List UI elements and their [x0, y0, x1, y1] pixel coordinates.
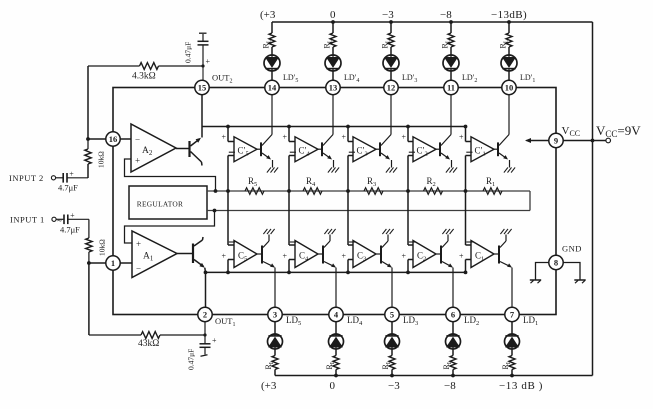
- wire RL to LED top 3: [390, 47, 392, 55]
- wire pin2 to feedback: [204, 321, 206, 335]
- svg-text:C′5: C′5: [238, 146, 249, 158]
- resistor RL bottom 2: [450, 356, 456, 370]
- resistor 4.3k feedback: [88, 65, 140, 67]
- svg-text:R2: R2: [427, 176, 436, 188]
- resistor 43k feedback: [89, 334, 141, 336]
- svg-text:−: −: [136, 264, 141, 274]
- LED LD'5: [264, 55, 280, 71]
- ground ref bottom cell 3: [382, 229, 386, 234]
- wire top col 4 rail to RL: [332, 22, 334, 33]
- IC outline: [113, 88, 556, 315]
- svg-text:RL: RL: [442, 360, 453, 369]
- svg-text:0: 0: [330, 380, 336, 392]
- svg-text:C′2: C′2: [417, 146, 428, 158]
- svg-text:A1: A1: [143, 252, 154, 263]
- regulator U2: [129, 186, 207, 219]
- wire LED to RL bottom 2: [452, 349, 454, 356]
- transistor bottom Q3 base: [380, 246, 382, 264]
- svg-text:REGULATOR: REGULATOR: [137, 200, 184, 209]
- wire pin4 to LED: [335, 321, 337, 334]
- pin 10: [502, 80, 516, 94]
- wire top col 3 rail to RL: [390, 22, 392, 33]
- svg-text:LD2: LD2: [464, 315, 479, 327]
- wire RL to rail bottom 1: [511, 370, 513, 376]
- resistor RL bottom 5: [272, 356, 278, 370]
- ground ref bottom cell 1: [500, 229, 504, 234]
- wire RL to rail bottom 2: [452, 370, 454, 376]
- pin 13: [326, 80, 340, 94]
- svg-text:11: 11: [447, 82, 455, 92]
- svg-text:RL: RL: [381, 39, 392, 48]
- pin 5: [385, 307, 399, 321]
- transistor bottom Q1 base: [498, 246, 500, 264]
- svg-text:0.47μF: 0.47μF: [184, 42, 193, 63]
- svg-text:+: +: [342, 133, 347, 142]
- svg-text:2: 2: [203, 309, 207, 319]
- svg-text:8: 8: [554, 257, 558, 267]
- junction bottom rail cell C5: [226, 271, 230, 275]
- comparator C'4: [295, 137, 318, 162]
- resistor R4: [303, 188, 322, 195]
- transistor bottom Q3 collector: [382, 241, 388, 248]
- svg-text:+: +: [283, 133, 288, 142]
- wire pin16 to A2 inv input: [120, 138, 131, 140]
- svg-text:6: 6: [451, 309, 455, 319]
- svg-text:+: +: [206, 57, 211, 66]
- svg-text:LD′2: LD′2: [462, 73, 477, 84]
- wire resistor chain: [207, 190, 530, 192]
- wire A1 noninv reference path: [125, 211, 215, 244]
- pin 6: [446, 307, 460, 321]
- transistor top Q'4 emitter: [323, 153, 331, 159]
- wire feedback top vertical: [87, 66, 89, 139]
- comparator C5: [234, 241, 257, 268]
- ground ref bottom cell 5: [263, 229, 267, 234]
- wire C'1 + input: [465, 127, 467, 142]
- transistor bottom Q4 collector: [324, 241, 330, 248]
- wire LED to RL bottom 1: [511, 349, 513, 356]
- svg-text:+: +: [342, 252, 347, 261]
- comparator C'3: [353, 137, 376, 162]
- junction pin1 feedback node: [87, 261, 91, 265]
- svg-text:RL: RL: [323, 39, 334, 48]
- svg-text:4.3kΩ: 4.3kΩ: [132, 72, 156, 82]
- transistor Q1 emitter: [194, 260, 204, 267]
- ground left of pin8: [536, 263, 549, 280]
- ground top cell 4: [328, 167, 332, 172]
- ground ref bottom cell 4: [324, 229, 328, 234]
- svg-text:0: 0: [330, 9, 336, 21]
- svg-text:+: +: [222, 133, 227, 142]
- transistor top Q'2 base: [439, 142, 441, 156]
- node chain tap 5: [226, 189, 230, 193]
- junction top rail cell C'5: [226, 125, 230, 129]
- svg-text:LD′3: LD′3: [402, 73, 417, 84]
- resistor R1: [483, 188, 502, 195]
- op-amp A2: [131, 124, 176, 172]
- comparator C3: [353, 241, 376, 268]
- svg-text:10kΩ: 10kΩ: [98, 239, 107, 256]
- transistor Q2 collector: [191, 152, 202, 163]
- wire top col 5 rail to RL: [271, 22, 273, 33]
- svg-text:0.47μF: 0.47μF: [187, 349, 196, 370]
- wire C2 - input: [407, 191, 409, 245]
- wire RL to rail bottom 5: [274, 370, 276, 376]
- wire C'2 + input: [407, 127, 409, 142]
- transistor Q2 emitter: [191, 139, 200, 146]
- wire LED to pin top 3: [390, 71, 392, 81]
- wire C'4 + input: [288, 127, 290, 142]
- svg-text:+: +: [222, 252, 227, 261]
- pin 14: [265, 80, 279, 94]
- svg-text:15: 15: [198, 82, 207, 92]
- svg-text:+: +: [70, 211, 75, 220]
- transistor top Q'2 collector: [441, 135, 451, 146]
- LED LD2: [446, 334, 461, 349]
- LED LD'4: [325, 55, 341, 71]
- ground top cell 2: [446, 167, 450, 172]
- transistor bottom Q1 emitter: [500, 262, 511, 267]
- terminal VCC supply: [606, 138, 611, 143]
- transistor top Q'4 collector: [323, 135, 333, 146]
- node chain tap 2: [406, 189, 410, 193]
- svg-text:VCC: VCC: [562, 125, 581, 138]
- svg-text:C4: C4: [299, 251, 309, 263]
- svg-text:−13 dB ): −13 dB ): [499, 380, 543, 392]
- wire LED to pin top 5: [271, 71, 273, 81]
- transistor top Q'5 collector: [262, 135, 272, 146]
- svg-text:−8: −8: [444, 380, 456, 392]
- svg-text:LD′1: LD′1: [520, 73, 535, 84]
- svg-text:LD′4: LD′4: [344, 73, 359, 84]
- LED LD'3: [383, 55, 399, 71]
- resistor RL bottom 1: [509, 356, 515, 370]
- wire C3 + input: [348, 259, 353, 261]
- svg-text:INPUT 1: INPUT 1: [10, 215, 45, 225]
- wire feedback bottom vertical: [88, 263, 90, 335]
- transistor bottom Q5 emitter: [263, 262, 274, 267]
- svg-text:+: +: [136, 239, 141, 249]
- transistor top Q'1 emitter: [499, 153, 507, 159]
- resistor RL top 1: [506, 33, 512, 47]
- svg-text:C3: C3: [357, 251, 366, 263]
- svg-text:R5: R5: [248, 176, 257, 188]
- transistor Q1 collector: [194, 240, 203, 246]
- svg-text:RL: RL: [499, 39, 510, 48]
- junction top rail cell C'2: [406, 125, 410, 129]
- wire RL to LED top 1: [508, 47, 510, 55]
- resistor RL top 4: [330, 33, 336, 47]
- junction A2 ref on chain: [214, 189, 218, 193]
- svg-text:RL: RL: [501, 360, 512, 369]
- svg-text:GND: GND: [562, 244, 582, 254]
- svg-text:RL: RL: [441, 39, 452, 48]
- wire A2 noninv reference path: [125, 159, 216, 191]
- ground top cell 3: [386, 167, 390, 172]
- svg-text:A2: A2: [142, 146, 153, 157]
- LED LD4: [329, 334, 344, 349]
- svg-text:(+3: (+3: [261, 380, 277, 392]
- capacitor 0.47uF top: [202, 45, 204, 66]
- wire C'5 - input: [228, 155, 234, 157]
- ground right of pin8: [563, 263, 580, 280]
- wire top signal rail: [202, 126, 466, 128]
- LED LD'2: [443, 55, 459, 71]
- svg-text:RL: RL: [264, 360, 275, 369]
- svg-text:RL: RL: [325, 360, 336, 369]
- svg-text:12: 12: [387, 82, 396, 92]
- wire bottom VCC rail: [275, 375, 593, 377]
- wire C'4 - input: [289, 155, 295, 157]
- svg-text:5: 5: [390, 309, 394, 319]
- wire pin3 to LED: [274, 321, 276, 334]
- transistor bottom Q4 emitter: [324, 262, 335, 267]
- svg-text:+: +: [212, 336, 217, 345]
- comparator C'2: [413, 137, 436, 162]
- svg-text:OUT2: OUT2: [212, 73, 232, 85]
- LED LD1: [505, 334, 520, 349]
- svg-text:+: +: [402, 252, 407, 261]
- node chain tap 1: [464, 189, 468, 193]
- wire C4 + input: [289, 259, 295, 261]
- svg-text:43kΩ: 43kΩ: [138, 339, 159, 349]
- svg-text:+: +: [459, 133, 464, 142]
- transistor top Q'3 emitter: [381, 153, 389, 159]
- resistor RL bottom 4: [333, 356, 339, 370]
- svg-text:1: 1: [111, 258, 115, 268]
- svg-text:RL: RL: [381, 360, 392, 369]
- svg-text:−3: −3: [388, 380, 400, 392]
- wire top col 2 rail to RL: [450, 22, 452, 33]
- wire 10k to input2 node: [87, 164, 89, 178]
- pin 11: [444, 80, 458, 94]
- wire C2 + input: [408, 259, 413, 261]
- wire pin2 to emitter node: [205, 272, 207, 308]
- wire RL to LED top 4: [332, 47, 334, 55]
- arrow VCC feed: [527, 140, 549, 142]
- svg-text:C′1: C′1: [475, 146, 486, 158]
- svg-text:4.7μF: 4.7μF: [60, 225, 80, 235]
- wire LED to RL bottom 3: [391, 349, 393, 356]
- resistor R5: [245, 188, 264, 195]
- wire RL to rail bottom 3: [391, 370, 393, 376]
- wire C'1 - input: [466, 155, 472, 157]
- node chain tap 3: [346, 189, 350, 193]
- wire pin9 to supply: [563, 140, 606, 142]
- ground top cell 1: [504, 167, 508, 172]
- svg-text:C1: C1: [475, 251, 484, 263]
- svg-text:16: 16: [109, 134, 118, 144]
- transistor bottom Q2 base: [440, 246, 442, 264]
- junction pin16 node: [86, 137, 90, 141]
- junction bottom rail cell C2: [406, 271, 410, 275]
- transistor top Q'5 base: [260, 142, 262, 156]
- svg-text:13: 13: [329, 82, 338, 92]
- pin 3: [268, 307, 282, 321]
- wire C3 - input: [347, 191, 349, 245]
- svg-text:10kΩ: 10kΩ: [97, 151, 106, 168]
- pin 1: [106, 256, 120, 270]
- wire pin15 to rail: [201, 94, 203, 138]
- junction bottom rail col 1: [510, 374, 514, 378]
- svg-text:R1: R1: [486, 176, 495, 188]
- wire C5 + input: [228, 259, 234, 261]
- pin 9 VCC: [549, 133, 563, 147]
- wire pin5 to LED: [391, 321, 393, 334]
- capacitor 4.7uF input2: [56, 177, 63, 179]
- comparator C2: [413, 241, 436, 268]
- wire right VCC vertical: [592, 22, 594, 376]
- pin 7: [505, 307, 519, 321]
- junction A1 emitter node: [204, 271, 208, 275]
- wire C1 + input: [466, 259, 472, 261]
- wire pin7 to LED: [511, 321, 513, 334]
- terminal input2: [51, 176, 55, 180]
- svg-text:R3: R3: [367, 176, 376, 188]
- op-amp A1: [132, 231, 177, 278]
- transistor bottom Q5 collector: [263, 241, 269, 248]
- resistor R3: [364, 188, 383, 195]
- junction bottom rail col 4: [334, 374, 338, 378]
- transistor bottom Q3 emitter: [382, 262, 391, 267]
- comparator C'1: [471, 137, 494, 162]
- junction top rail col 2: [449, 20, 453, 24]
- svg-text:10: 10: [505, 82, 514, 92]
- wire LED to pin top 4: [332, 71, 334, 81]
- resistor RL bottom 3: [389, 356, 395, 370]
- comparator C4: [295, 241, 318, 268]
- junction top rail col 1: [507, 20, 511, 24]
- wire pin1 to A1 inv input: [89, 262, 106, 264]
- junction bottom rail col 2: [451, 374, 455, 378]
- resistor 10k input2: [87, 139, 89, 149]
- wire C1 - input: [465, 191, 467, 245]
- svg-text:C5: C5: [238, 251, 247, 263]
- capacitor 4.7uF input1: [56, 218, 63, 220]
- junction A1 ref on return rail: [213, 209, 217, 213]
- resistor RL top 3: [388, 33, 394, 47]
- svg-text:−3: −3: [382, 9, 394, 21]
- wire C'5 + input: [227, 127, 229, 142]
- svg-text:LD′5: LD′5: [283, 73, 298, 84]
- svg-text:LD1: LD1: [523, 315, 538, 327]
- svg-text:LD4: LD4: [347, 315, 363, 327]
- wire regulator return rail: [207, 210, 530, 212]
- svg-text:VCC=9V: VCC=9V: [596, 123, 641, 139]
- wire LED to RL bottom 4: [335, 349, 337, 356]
- wire C'3 + input: [347, 127, 349, 142]
- transistor bottom Q4 base: [322, 246, 324, 264]
- transistor top Q'1 base: [497, 142, 499, 156]
- wire LED to pin top 2: [450, 71, 452, 81]
- transistor bottom Q1 collector: [500, 241, 506, 248]
- svg-text:14: 14: [268, 82, 277, 92]
- svg-text:+: +: [459, 252, 464, 261]
- wire C5 - input: [227, 191, 229, 245]
- wire chain end down: [529, 191, 531, 211]
- svg-text:LD3: LD3: [403, 315, 418, 327]
- svg-text:−13dB): −13dB): [491, 9, 527, 21]
- wire RL to LED top 2: [450, 47, 452, 55]
- ground top cell 5: [267, 167, 271, 172]
- resistor RL top 2: [448, 33, 454, 47]
- wire top col 1 rail to RL: [508, 22, 510, 33]
- svg-text:9: 9: [554, 135, 558, 145]
- junction bottom rail col 3: [390, 374, 394, 378]
- svg-text:+: +: [283, 252, 288, 261]
- resistor RL top 5: [269, 33, 275, 47]
- svg-text:LD5: LD5: [286, 315, 301, 327]
- ground ref bottom cell 2: [442, 229, 446, 234]
- svg-text:C′4: C′4: [299, 146, 311, 158]
- pin 2: [198, 307, 212, 321]
- transistor top Q'4 base: [321, 142, 323, 156]
- svg-text:C′3: C′3: [357, 146, 368, 158]
- wire C'2 - input: [408, 155, 413, 157]
- svg-text:4.7μF: 4.7μF: [58, 183, 78, 193]
- transistor bottom Q2 emitter: [442, 262, 452, 267]
- svg-text:3: 3: [273, 309, 277, 319]
- transistor top Q'1 collector: [499, 135, 509, 146]
- transistor Q2 base bar: [188, 141, 190, 157]
- pin 8 GND: [549, 255, 563, 269]
- junction top rail col 3: [389, 20, 393, 24]
- svg-text:R4: R4: [306, 176, 316, 188]
- junction bottom rail cell C1: [464, 271, 468, 275]
- wire LED to RL bottom 5: [274, 349, 276, 356]
- svg-text:(+3: (+3: [260, 9, 276, 21]
- junction top rail cell C'3: [346, 125, 350, 129]
- resistor 10k input1: [88, 219, 90, 238]
- pin 15: [195, 80, 209, 94]
- wire junction to pin15: [202, 66, 204, 81]
- wire C4 - input: [288, 191, 290, 245]
- transistor Q2 base lead: [176, 148, 190, 150]
- transistor Q1 base lead: [177, 253, 193, 255]
- transistor top Q'3 collector: [381, 135, 391, 146]
- comparator C'5: [234, 137, 257, 162]
- terminal input1: [52, 217, 56, 221]
- node chain tap 4: [287, 189, 291, 193]
- wire RL to LED top 5: [271, 47, 273, 55]
- svg-text:+: +: [69, 169, 74, 178]
- svg-text:C2: C2: [417, 251, 426, 263]
- junction bottom rail cell C3: [346, 271, 350, 275]
- LED LD'1: [501, 55, 517, 71]
- capacitor 0.47uF bottom: [204, 335, 206, 344]
- transistor Q1 base bar: [192, 244, 194, 264]
- pin 4: [329, 307, 343, 321]
- svg-text:−: −: [135, 135, 140, 145]
- svg-text:+: +: [135, 156, 140, 166]
- wire LED to pin top 1: [508, 71, 510, 81]
- LED LD3: [385, 334, 400, 349]
- svg-text:RL: RL: [262, 39, 273, 48]
- pin 16: [106, 132, 120, 146]
- junction top rail cell C'4: [287, 125, 291, 129]
- transistor top Q'2 emitter: [441, 153, 449, 159]
- pin 12: [384, 80, 398, 94]
- svg-text:−8: −8: [440, 9, 452, 21]
- wire top VCC rail: [272, 21, 593, 23]
- junction top rail cell C'1: [464, 125, 468, 129]
- wire bottom signal rail: [206, 271, 466, 273]
- LED LD5: [268, 334, 283, 349]
- wire pin6 to LED: [452, 321, 454, 334]
- junction top rail col 4: [331, 20, 335, 24]
- svg-text:+: +: [402, 133, 407, 142]
- transistor bottom Q2 collector: [442, 241, 448, 248]
